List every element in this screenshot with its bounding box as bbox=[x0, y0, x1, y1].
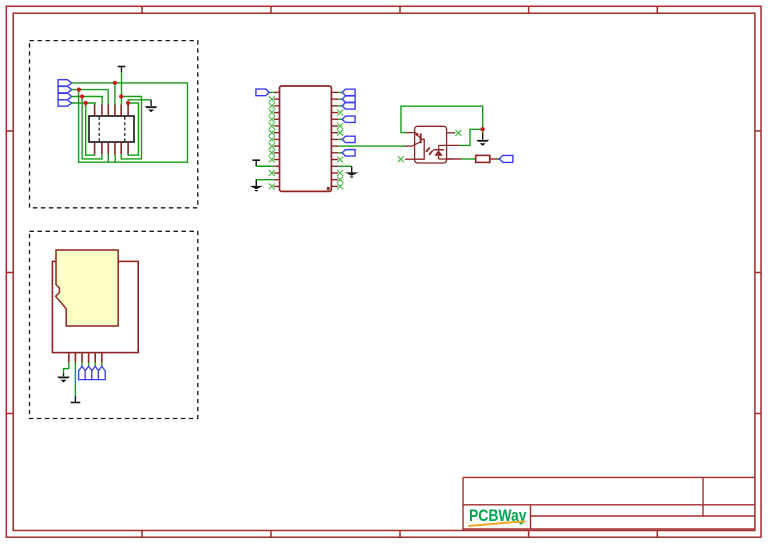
ground symbol (arrow) IC right bbox=[345, 172, 359, 178]
IC U1 pin1 marker dot bbox=[327, 187, 330, 190]
SD flag 1 bbox=[79, 366, 86, 379]
wire U2 to resistor R1 bbox=[447, 158, 476, 160]
frame row ticks left bbox=[6, 131, 13, 414]
U2 light arrows bbox=[425, 147, 433, 155]
no-connect cross U2 right top bbox=[455, 130, 461, 136]
optocoupler U2 body bbox=[415, 126, 447, 163]
U2 transistor emitter bbox=[405, 142, 421, 146]
IC U1 left flag (pin1) bbox=[256, 89, 274, 96]
wire net1 (flag1 loop to pins) bbox=[72, 83, 188, 162]
connector J1 inner dashed right bbox=[124, 117, 126, 141]
U2 transistor base bar bbox=[420, 133, 422, 143]
SD flag 4 bbox=[98, 366, 105, 379]
no-connect cross U2 bottom left bbox=[398, 156, 404, 162]
PCBWay logo orange swoosh bbox=[468, 521, 525, 526]
IC U1 right flag pin2 bbox=[338, 96, 355, 102]
wire R1 to flag bbox=[490, 158, 500, 160]
flag GND bbox=[58, 100, 72, 106]
wire IC pin12 to supply bbox=[256, 165, 274, 167]
wire SD pin2 to ground bbox=[74, 362, 76, 402]
connector J1 top pins bbox=[95, 104, 129, 116]
IC U1 right no-connect crosses bbox=[337, 110, 343, 190]
flag right of R1 bbox=[499, 155, 513, 162]
IC U1 right flag pin1 bbox=[338, 89, 355, 95]
IC U1 right flag pin8 bbox=[338, 136, 355, 142]
dashed module box 2 bbox=[30, 231, 198, 418]
ground symbol (earth) SD bbox=[57, 377, 70, 383]
wire net2 (flag2 to top pin3) bbox=[72, 90, 108, 105]
ground symbol (arrow) IC left bbox=[250, 186, 264, 192]
title block frame bbox=[463, 477, 755, 530]
junction dots box1 bbox=[77, 81, 130, 105]
dashed module box 1 bbox=[30, 41, 198, 208]
resistor R1 bbox=[476, 155, 490, 162]
connector J1 bottom pins bbox=[95, 142, 129, 155]
wire net6 (pin6 to ground) bbox=[128, 100, 151, 155]
frame column ticks top bbox=[142, 6, 657, 13]
SD flag 3 bbox=[92, 366, 99, 379]
wire IC pin14 to ground bbox=[256, 180, 274, 186]
junction dot at ground loop bbox=[481, 127, 485, 131]
supply symbol VCC (T-bar) bbox=[118, 67, 126, 73]
frame column ticks bottom bbox=[142, 531, 657, 538]
connector J1 body bbox=[89, 116, 134, 142]
wire SD pin1 to ground bbox=[64, 362, 69, 376]
U2 bottom-left pin bbox=[405, 158, 415, 160]
SD socket body bbox=[52, 261, 138, 352]
IC U1 left no-connect crosses bbox=[269, 96, 275, 189]
U2 base tap path bbox=[415, 139, 425, 159]
U2 right top pin bbox=[447, 132, 456, 134]
wire net3 (flag3 to pins) bbox=[72, 97, 103, 159]
U2 transistor collector bbox=[405, 133, 421, 139]
wire net4 (flag4 to pins) bbox=[72, 103, 95, 155]
U2 LED bbox=[433, 145, 444, 159]
flag VBUS bbox=[58, 80, 72, 86]
wire IC pin9 to optocoupler bbox=[338, 145, 406, 147]
ground symbol (T-bar) SD bbox=[71, 402, 81, 404]
ground symbol (earth) in box1 bbox=[145, 106, 158, 112]
IC U1 body bbox=[280, 86, 332, 191]
IC U1 right flag pin3 bbox=[338, 103, 355, 109]
PCBWay logo text bbox=[469, 507, 527, 525]
connector J1 inner dashed left bbox=[98, 117, 100, 141]
wire IC pin12right to ground bbox=[338, 166, 352, 172]
ground symbol (earth) near U2 bbox=[476, 140, 489, 146]
IC U1 right flag pin5 bbox=[338, 116, 355, 122]
IC U1 right pin stubs bbox=[331, 92, 338, 186]
IC U1 right flag pin10 bbox=[338, 150, 355, 156]
SD card (yellow) bbox=[56, 250, 119, 326]
U2 right middle pin bbox=[439, 144, 460, 146]
wires SD pins to flags bbox=[82, 362, 102, 366]
IC U1 left pin stubs bbox=[274, 92, 280, 186]
wire net5 (supply to pin5 and loop) bbox=[121, 72, 141, 159]
frame row ticks right bbox=[755, 131, 761, 414]
wire U2 collector loop to ground bbox=[401, 106, 483, 145]
flag D- bbox=[58, 86, 72, 92]
flag D+ bbox=[58, 93, 72, 99]
U2 right bottom pin bbox=[439, 158, 454, 160]
SD flag 2 bbox=[85, 366, 92, 379]
SD socket pins bbox=[69, 353, 102, 363]
supply symbol at IC left bbox=[252, 160, 260, 166]
